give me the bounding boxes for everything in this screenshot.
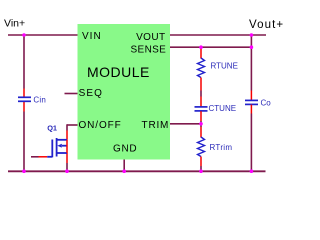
wire RTrim to rail: [200, 166, 202, 171]
pin lead Q1 gate: [39, 156, 48, 158]
pin lead CTUNE top: [200, 97, 202, 107]
junction node rail Co: [250, 169, 254, 173]
wire Cin branch lower: [23, 112, 25, 172]
pin lead Cin bottom: [23, 102, 25, 112]
junction node SENSE/Vout: [250, 45, 254, 49]
wire CTUNE RTrim link: [200, 121, 202, 127]
svg-text:SENSE: SENSE: [131, 45, 167, 56]
svg-text:Vin+: Vin+: [4, 18, 25, 30]
pin lead RTUNE bottom: [200, 78, 202, 91]
svg-text:Q1: Q1: [47, 124, 57, 133]
capacitor CTUNE: [195, 107, 208, 111]
wire RTUNE CTUNE link: [200, 91, 202, 97]
wire Vout vertical upper: [250, 35, 252, 91]
transistor Q1 arrow: [57, 144, 62, 148]
pin lead CTUNE bottom: [200, 111, 202, 121]
svg-text:RTrim: RTrim: [210, 143, 233, 152]
wire Co lower: [250, 114, 252, 172]
svg-text:ON/OFF: ON/OFF: [79, 120, 122, 131]
pin lead Cin top: [23, 89, 25, 98]
junction node rail Cin: [22, 169, 26, 173]
junction node TRIM: [199, 122, 203, 126]
junction node Vin/Cin: [22, 33, 26, 37]
wire VOUT to Vout+: [170, 34, 266, 36]
transistor Q1: [47, 138, 67, 157]
capacitor Cin: [18, 97, 31, 101]
svg-text:TRIM: TRIM: [142, 120, 170, 131]
wire ground rail: [8, 170, 266, 172]
resistor RTUNE: [198, 58, 205, 78]
wire Q1 source lower: [66, 163, 68, 171]
pin lead Q1 drain: [66, 131, 68, 140]
wire TRIM: [170, 123, 201, 125]
wire ON/OFF horizontal: [67, 124, 78, 126]
svg-text:Cin: Cin: [33, 95, 46, 104]
junction node rail RTrim: [199, 169, 203, 173]
svg-text:CTUNE: CTUNE: [209, 104, 237, 113]
svg-text:VIN: VIN: [82, 31, 102, 42]
svg-text:MODULE: MODULE: [87, 64, 150, 80]
pin lead RTUNE top: [200, 47, 202, 58]
module U1 body: [78, 24, 171, 160]
junction node rail GND: [122, 169, 126, 173]
junction node SENSE/RTUNE: [199, 45, 203, 49]
pin lead Co top: [250, 91, 252, 101]
svg-text:SEQ: SEQ: [79, 88, 103, 99]
svg-text:GND: GND: [113, 143, 137, 154]
pin lead Q1 source: [66, 153, 68, 163]
svg-text:RTUNE: RTUNE: [211, 62, 238, 71]
svg-text:VOUT: VOUT: [136, 32, 165, 43]
svg-text:Vout+: Vout+: [249, 19, 283, 31]
svg-text:Co: Co: [261, 99, 272, 108]
pin lead Q1 body link: [66, 140, 68, 153]
pin lead Co bottom: [250, 105, 252, 114]
pin lead RTrim top: [200, 127, 202, 138]
wire SENSE: [170, 46, 251, 48]
wire Vin+ to VIN: [8, 34, 78, 36]
junction node Vout top: [250, 33, 254, 37]
wire GND pin: [123, 160, 125, 172]
wire ON/OFF corner down: [66, 124, 68, 130]
pin lead RTrim bottom: [200, 157, 202, 167]
wire Q1 gate stub: [31, 156, 39, 158]
resistor RTrim: [198, 137, 205, 157]
junction node rail Q1: [65, 169, 69, 173]
wire Cin branch upper: [23, 35, 25, 89]
capacitor Co: [245, 100, 258, 104]
wire SEQ stub: [65, 93, 78, 95]
